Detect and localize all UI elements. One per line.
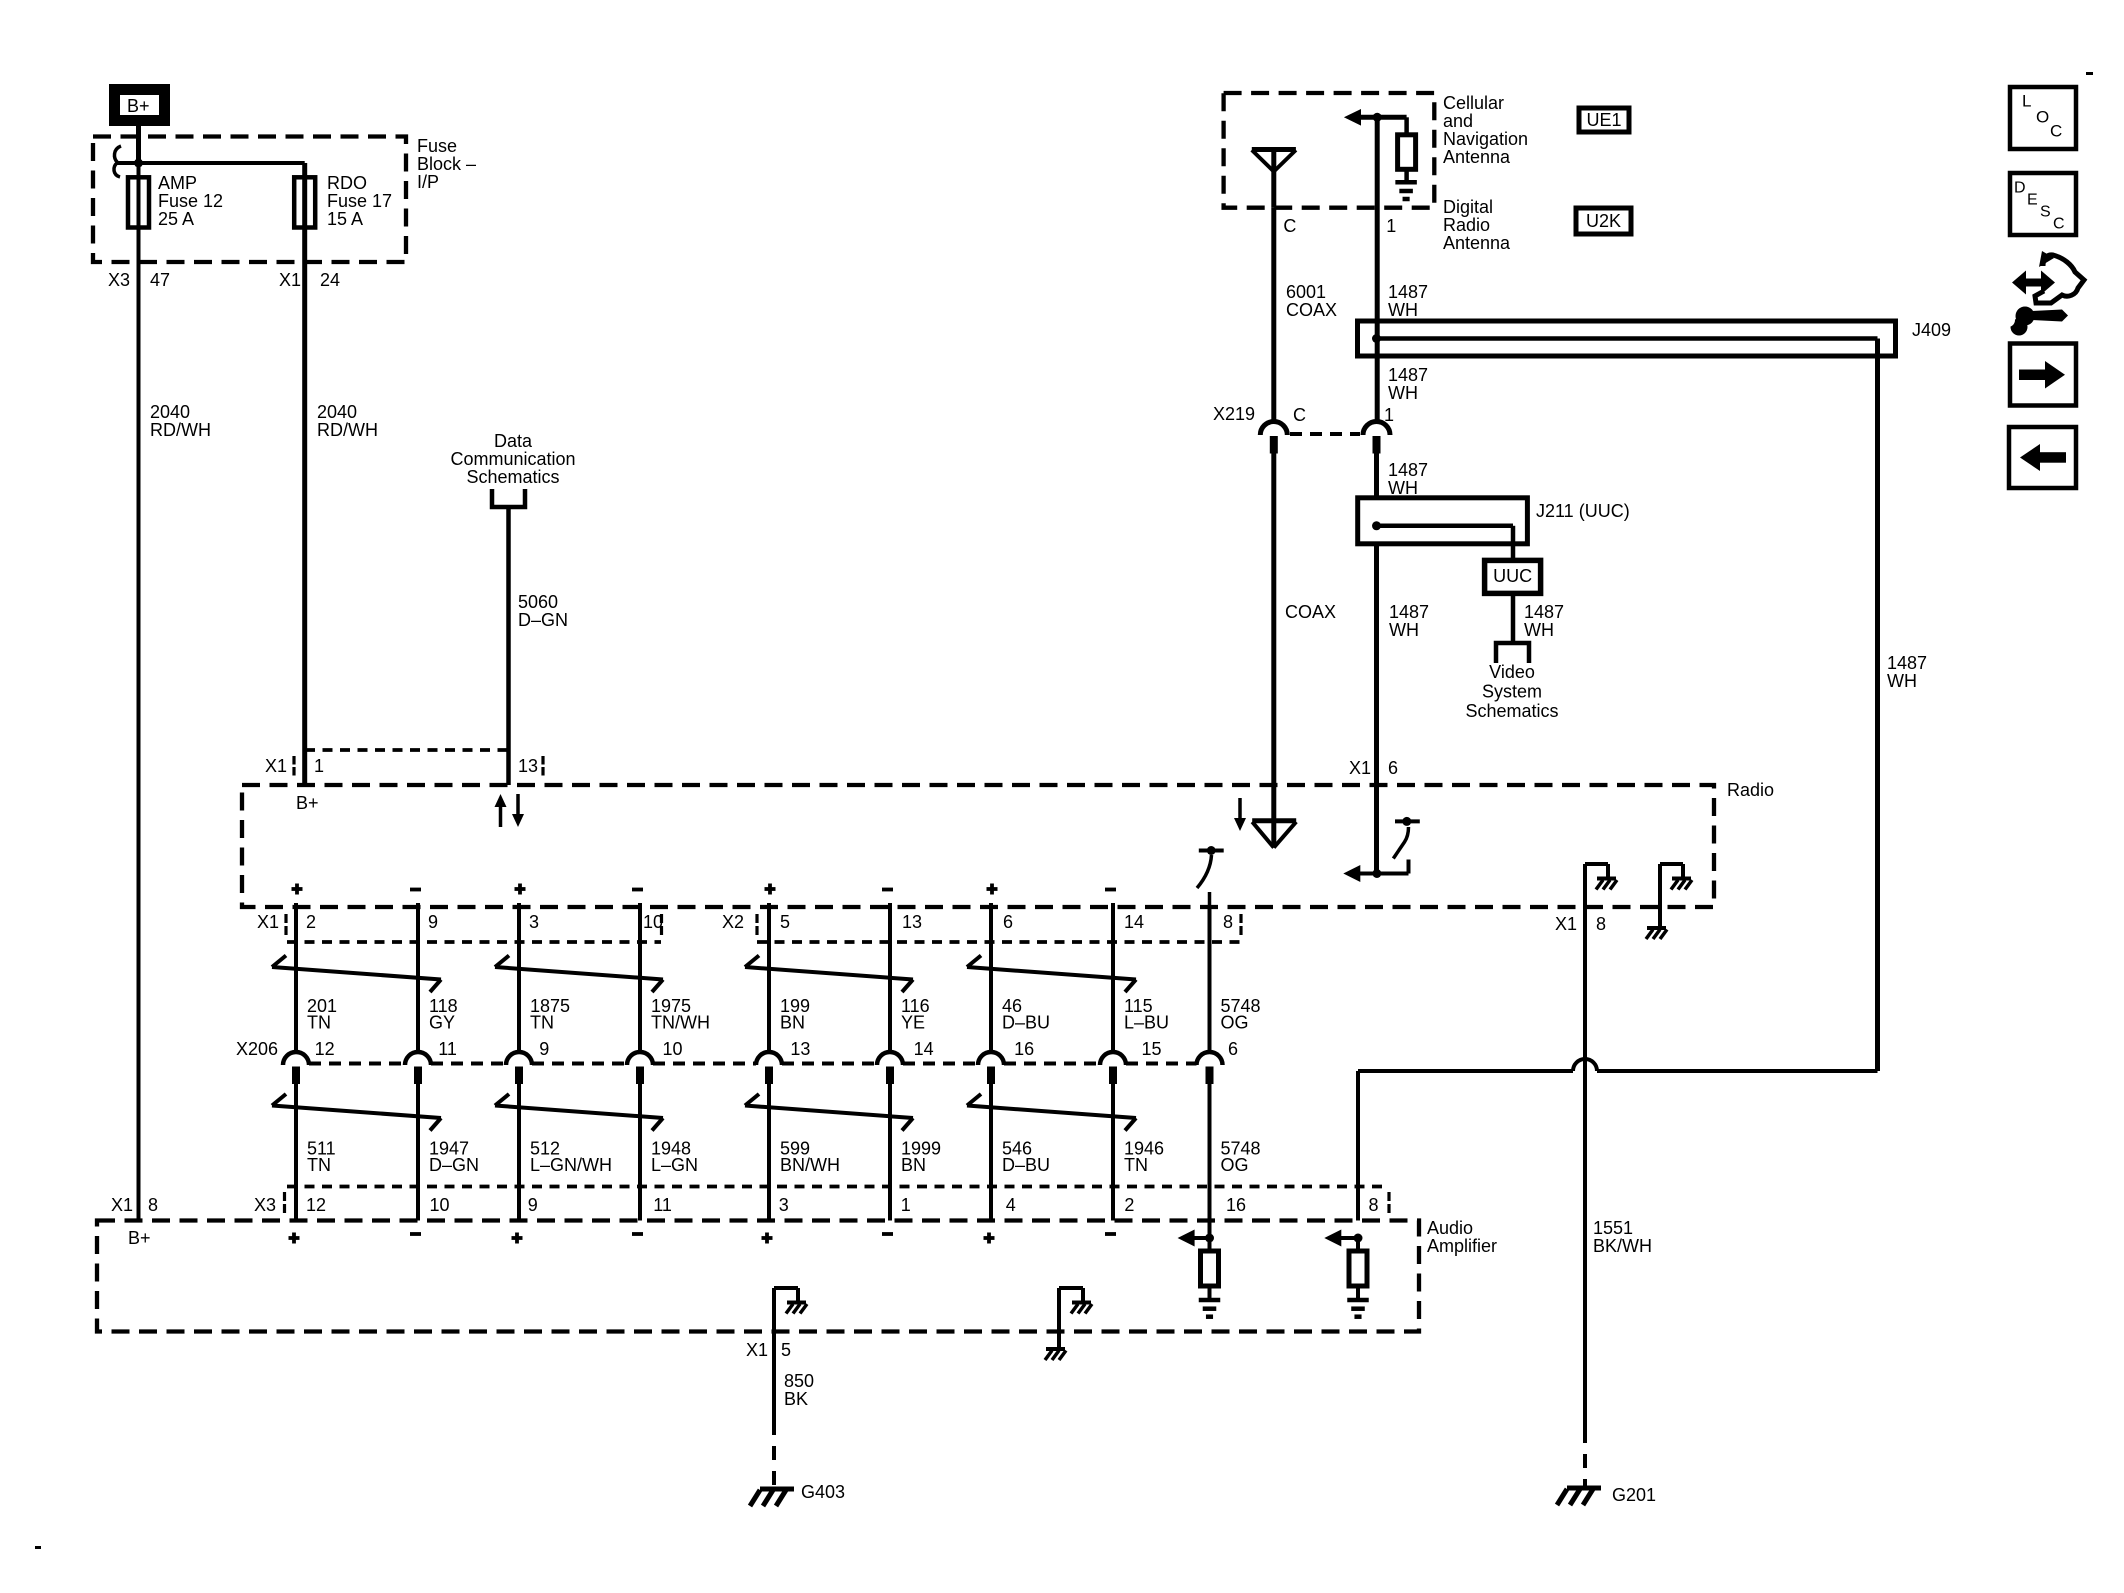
stray mark bottom left — [35, 1546, 41, 1549]
svg-text:24: 24 — [320, 270, 340, 290]
svg-text:O: O — [2036, 107, 2049, 126]
svg-text:B+: B+ — [127, 96, 150, 116]
svg-text:G201: G201 — [1612, 1485, 1656, 1505]
svg-text:S: S — [2040, 204, 2051, 221]
twisted pair symbols row 1 — [272, 967, 441, 980]
wire bus fuse block feed — [117, 161, 305, 165]
wire 199 BN radio to X206 — [767, 903, 771, 1052]
svg-text:UE1: UE1 — [1586, 110, 1621, 130]
svg-text:E: E — [2027, 192, 2038, 209]
svg-text:Antenna: Antenna — [1443, 147, 1511, 167]
wire 6001 COAX lower — [1271, 448, 1276, 848]
icon box arrow left — [2009, 427, 2076, 488]
power symbol B+ — [109, 84, 170, 126]
svg-text:3: 3 — [529, 912, 539, 932]
svg-text:Block –: Block – — [417, 154, 476, 174]
svg-text:Audio: Audio — [1427, 1218, 1473, 1238]
wire 115 L–BU radio to X206 — [1111, 903, 1115, 1052]
svg-text:8: 8 — [148, 1195, 158, 1215]
svg-text:10: 10 — [430, 1195, 450, 1215]
wire 511 TN X206 to amplifier — [294, 1084, 298, 1221]
wire 1947 D–GN X206 to amplifier — [416, 1084, 420, 1221]
svg-text:COAX: COAX — [1286, 300, 1337, 320]
svg-text:System: System — [1482, 682, 1542, 702]
svg-text:BK/WH: BK/WH — [1593, 1236, 1652, 1256]
svg-text:Radio: Radio — [1727, 780, 1774, 800]
icon box DESC — [2010, 173, 2076, 235]
polarity sign at radio pin 9 — [410, 888, 421, 892]
svg-text:13: 13 — [790, 1039, 810, 1059]
svg-text:5: 5 — [781, 1340, 791, 1360]
svg-text:1487: 1487 — [1887, 653, 1927, 673]
svg-text:9: 9 — [428, 912, 438, 932]
svg-text:Video: Video — [1489, 662, 1535, 682]
svg-text:1487: 1487 — [1389, 602, 1429, 622]
svg-text:Amplifier: Amplifier — [1427, 1236, 1497, 1256]
svg-text:C: C — [1283, 216, 1296, 236]
svg-text:J211 (UUC): J211 (UUC) — [1536, 501, 1630, 521]
wire 118 GY radio to X206 — [416, 903, 420, 1052]
svg-text:X1: X1 — [746, 1340, 768, 1360]
RPO code box UE1 — [1579, 108, 1629, 132]
icon diagnostic wrench — [2032, 310, 2068, 322]
icon diagnostic double arrow — [2012, 271, 2055, 295]
svg-text:X1: X1 — [265, 756, 287, 776]
svg-text:850: 850 — [784, 1371, 814, 1391]
svg-text:WH: WH — [1388, 478, 1418, 498]
svg-text:WH: WH — [1389, 620, 1419, 640]
svg-text:WH: WH — [1388, 383, 1418, 403]
svg-text:1551: 1551 — [1593, 1218, 1633, 1238]
amplifier internal chassis ground left — [772, 1288, 776, 1332]
svg-text:RD/WH: RD/WH — [150, 420, 211, 440]
wire 2040 RD/WH right — [302, 228, 307, 786]
svg-text:2: 2 — [1124, 1195, 1134, 1215]
wire 850 BK — [772, 1332, 776, 1422]
polarity sign at radio pin 2 — [295, 884, 299, 895]
svg-text:11: 11 — [653, 1195, 672, 1215]
svg-text:D–GN: D–GN — [518, 610, 568, 630]
wire 1487 WH right branch from J409 — [1875, 356, 1880, 1071]
svg-text:GY: GY — [429, 1013, 455, 1033]
svg-text:5060: 5060 — [518, 592, 558, 612]
svg-text:X1: X1 — [111, 1195, 133, 1215]
polarity sign at radio pin 3 — [518, 884, 522, 895]
svg-text:2040: 2040 — [317, 402, 357, 422]
antenna load resistor — [1404, 117, 1409, 135]
svg-text:Fuse 12: Fuse 12 — [158, 191, 223, 211]
svg-text:Fuse: Fuse — [417, 136, 457, 156]
svg-text:16: 16 — [1014, 1039, 1034, 1059]
svg-text:Navigation: Navigation — [1443, 129, 1528, 149]
wire 1948 L–GN X206 to amplifier — [638, 1084, 642, 1221]
polarity sign at amplifier pin 12 — [292, 1233, 296, 1244]
wire 1487 WH to radio pin 6 — [1374, 544, 1379, 874]
stray mark top right — [2086, 72, 2093, 75]
polarity sign at amplifier pin 10 — [410, 1232, 421, 1236]
fuse block dashed box Fuse Block - I/P — [93, 137, 406, 263]
svg-text:J409: J409 — [1912, 320, 1951, 340]
svg-text:X1: X1 — [1349, 758, 1371, 778]
twisted pair symbols row 2 — [272, 1106, 441, 1119]
svg-text:D–BU: D–BU — [1002, 1155, 1050, 1175]
svg-text:TN: TN — [307, 1155, 331, 1175]
wire 546 D–BU X206 to amplifier — [989, 1084, 993, 1221]
antenna feed arrow and junction — [1344, 109, 1361, 126]
radio dashed box — [242, 785, 1714, 907]
wire 512 L–GN/WH X206 to amplifier — [517, 1084, 521, 1221]
ground G403 — [760, 1487, 794, 1492]
svg-text:X219: X219 — [1213, 404, 1255, 424]
svg-text:Communication: Communication — [450, 449, 575, 469]
svg-text:WH: WH — [1524, 620, 1554, 640]
svg-text:C: C — [2053, 216, 2065, 233]
polarity sign at amplifier pin 9 — [515, 1233, 519, 1244]
svg-text:BK: BK — [784, 1389, 808, 1409]
audio amplifier dashed box — [97, 1221, 1419, 1332]
svg-text:D–BU: D–BU — [1002, 1013, 1050, 1033]
antenna symbol — [1252, 147, 1296, 152]
svg-text:2: 2 — [306, 912, 316, 932]
ground G201 — [1567, 1486, 1601, 1491]
svg-text:11: 11 — [438, 1039, 457, 1059]
svg-text:4: 4 — [1006, 1195, 1016, 1215]
svg-text:D: D — [2014, 180, 2026, 197]
svg-text:WH: WH — [1388, 300, 1418, 320]
amplifier mute element pin 8 — [1324, 1230, 1341, 1247]
svg-text:X2: X2 — [722, 912, 744, 932]
earth ground in antenna module — [1404, 169, 1409, 182]
svg-text:D–GN: D–GN — [429, 1155, 479, 1175]
svg-text:C: C — [2050, 121, 2062, 140]
wire UUC to video system 1487 WH — [1511, 593, 1516, 643]
svg-text:WH: WH — [1887, 671, 1917, 691]
svg-text:YE: YE — [901, 1013, 925, 1033]
radio antenna input element pin 6 — [1343, 865, 1360, 882]
svg-text:Antenna: Antenna — [1443, 233, 1511, 253]
svg-text:Data: Data — [494, 431, 533, 451]
off-page reference Video System Schematics — [1496, 643, 1529, 663]
wire 1875 TN radio to X206 — [517, 903, 521, 1052]
data line arrows at radio pin 13 — [499, 806, 503, 827]
svg-text:10: 10 — [663, 1039, 683, 1059]
svg-text:L–GN/WH: L–GN/WH — [530, 1155, 612, 1175]
svg-text:BN: BN — [780, 1013, 805, 1033]
icon box arrow right — [2010, 344, 2076, 406]
svg-text:6: 6 — [1388, 758, 1398, 778]
wire 5748 OG X206 to amplifier — [1208, 1084, 1212, 1221]
amplifier internal chassis ground right — [1057, 1288, 1061, 1347]
svg-text:TN: TN — [307, 1013, 331, 1033]
icon box LOC — [2010, 87, 2076, 149]
wire 46 D–BU radio to X206 — [989, 903, 993, 1052]
svg-text:Schematics: Schematics — [1465, 701, 1558, 721]
polarity sign at radio pin 10 — [632, 888, 643, 892]
svg-text:RDO: RDO — [327, 173, 367, 193]
svg-text:X3: X3 — [254, 1195, 276, 1215]
svg-text:Fuse 17: Fuse 17 — [327, 191, 392, 211]
module box UUC — [1485, 560, 1541, 593]
splice pack J409 — [1358, 321, 1896, 356]
radio bottom connector X2 fine dotted box — [757, 940, 1241, 944]
svg-text:B+: B+ — [296, 793, 319, 813]
svg-text:Cellular: Cellular — [1443, 93, 1504, 113]
svg-text:1487: 1487 — [1388, 282, 1428, 302]
svg-text:C: C — [1293, 405, 1306, 425]
svg-text:L: L — [2022, 91, 2031, 110]
svg-text:COAX: COAX — [1285, 602, 1336, 622]
svg-text:13: 13 — [518, 756, 538, 776]
svg-text:12: 12 — [306, 1195, 326, 1215]
svg-text:TN: TN — [1124, 1155, 1148, 1175]
svg-text:OG: OG — [1221, 1013, 1249, 1033]
svg-text:6001: 6001 — [1286, 282, 1326, 302]
svg-text:5: 5 — [780, 912, 790, 932]
svg-text:47: 47 — [150, 270, 170, 290]
svg-text:X1: X1 — [1555, 914, 1577, 934]
svg-text:X206: X206 — [236, 1039, 278, 1059]
wire 1975 TN/WH radio to X206 — [638, 903, 642, 1052]
wire 599 BN/WH X206 to amplifier — [767, 1084, 771, 1221]
svg-text:15: 15 — [1142, 1039, 1162, 1059]
polarity sign at amplifier pin 1 — [882, 1232, 893, 1236]
polarity sign at radio pin 5 — [768, 884, 772, 895]
svg-text:AMP: AMP — [158, 173, 197, 193]
svg-text:OG: OG — [1221, 1155, 1249, 1175]
svg-text:1487: 1487 — [1524, 602, 1564, 622]
svg-text:Digital: Digital — [1443, 197, 1493, 217]
svg-text:13: 13 — [902, 912, 922, 932]
amplifier connector X3 fine dotted box — [287, 1185, 1389, 1189]
svg-text:1487: 1487 — [1388, 365, 1428, 385]
radio internal ground right — [1658, 864, 1662, 926]
svg-text:8: 8 — [1369, 1195, 1379, 1215]
icon diagnostic outline shape — [2035, 255, 2084, 303]
connector X206 dashed line — [309, 1062, 405, 1066]
svg-text:BN/WH: BN/WH — [780, 1155, 840, 1175]
svg-text:1: 1 — [314, 756, 324, 776]
svg-text:and: and — [1443, 111, 1473, 131]
radio top connector X1 fine dotted box — [305, 748, 511, 752]
polarity sign at amplifier pin 11 — [632, 1232, 643, 1236]
antenna module dashed box Cellular and Navigation / Digital Radio Antenna — [1224, 93, 1435, 208]
radio bottom connector X1 fine dotted box — [287, 940, 661, 944]
svg-text:Radio: Radio — [1443, 215, 1490, 235]
svg-text:U2K: U2K — [1586, 211, 1621, 231]
wire B+ feed into fuse block — [136, 126, 141, 163]
svg-text:I/P: I/P — [417, 172, 439, 192]
radio mute switch element pin 8 — [1199, 849, 1224, 853]
wire antenna pin 1 down — [1375, 117, 1380, 421]
svg-text:8: 8 — [1596, 914, 1606, 934]
svg-text:G403: G403 — [801, 1482, 845, 1502]
polarity sign at radio pin 14 — [1105, 888, 1116, 892]
wire 2040 RD/WH left — [137, 228, 141, 1221]
svg-text:RD/WH: RD/WH — [317, 420, 378, 440]
polarity sign at amplifier pin 2 — [1105, 1232, 1116, 1236]
RPO code box U2K — [1576, 208, 1631, 234]
svg-text:UUC: UUC — [1493, 566, 1532, 586]
wire 201 TN radio to X206 — [294, 903, 298, 1052]
svg-text:1: 1 — [901, 1195, 911, 1215]
svg-text:6: 6 — [1003, 912, 1013, 932]
svg-text:B+: B+ — [128, 1228, 151, 1248]
svg-text:6: 6 — [1228, 1039, 1238, 1059]
svg-text:TN/WH: TN/WH — [651, 1013, 710, 1033]
svg-text:X1: X1 — [257, 912, 279, 932]
wire 1999 BN X206 to amplifier — [888, 1084, 892, 1221]
polarity sign at radio pin 6 — [990, 884, 994, 895]
svg-text:TN: TN — [530, 1013, 554, 1033]
wire 1946 TN X206 to amplifier — [1111, 1084, 1115, 1221]
wire 1551 BK/WH — [1583, 907, 1587, 1429]
radio internal ground left — [1583, 864, 1587, 907]
splice curl in fuse block — [114, 146, 121, 177]
svg-text:14: 14 — [914, 1039, 934, 1059]
fuse F17 RDO Fuse 17 15 A — [302, 177, 307, 228]
fuse F12 AMP Fuse 12 25 A — [137, 177, 141, 228]
svg-text:1: 1 — [1386, 216, 1396, 236]
svg-text:10: 10 — [643, 912, 663, 932]
wire 5060 D-GN — [506, 507, 511, 785]
polarity sign at radio pin 13 — [882, 888, 893, 892]
polarity sign at amplifier pin 3 — [765, 1233, 769, 1244]
svg-text:12: 12 — [315, 1039, 335, 1059]
svg-text:1487: 1487 — [1388, 460, 1428, 480]
svg-text:Schematics: Schematics — [466, 467, 559, 487]
splice pack J211 (UUC) — [1358, 498, 1528, 544]
svg-text:9: 9 — [528, 1195, 538, 1215]
wire 6001 COAX upper — [1271, 208, 1276, 422]
svg-text:15 A: 15 A — [327, 209, 363, 229]
polarity sign at amplifier pin 4 — [987, 1233, 991, 1244]
svg-text:25 A: 25 A — [158, 209, 194, 229]
wire 5748 OG radio to X206 — [1208, 907, 1212, 1052]
wire 1487 WH J409 to J211 — [1374, 453, 1379, 498]
svg-text:8: 8 — [1223, 912, 1233, 932]
svg-text:BN: BN — [901, 1155, 926, 1175]
svg-text:L–BU: L–BU — [1124, 1013, 1169, 1033]
amplifier mute element pin 16 — [1178, 1230, 1195, 1247]
svg-text:9: 9 — [539, 1039, 549, 1059]
svg-text:14: 14 — [1124, 912, 1144, 932]
radio antenna receptacle symbol — [1238, 798, 1242, 819]
wire 1551 branch to amplifier pin 8 — [1597, 1069, 1878, 1073]
svg-text:16: 16 — [1226, 1195, 1246, 1215]
wire 116 YE radio to X206 — [888, 903, 892, 1052]
svg-text:2040: 2040 — [150, 402, 190, 422]
svg-text:X1: X1 — [279, 270, 301, 290]
svg-text:X3: X3 — [108, 270, 130, 290]
svg-text:3: 3 — [779, 1195, 789, 1215]
svg-text:L–GN: L–GN — [651, 1155, 698, 1175]
